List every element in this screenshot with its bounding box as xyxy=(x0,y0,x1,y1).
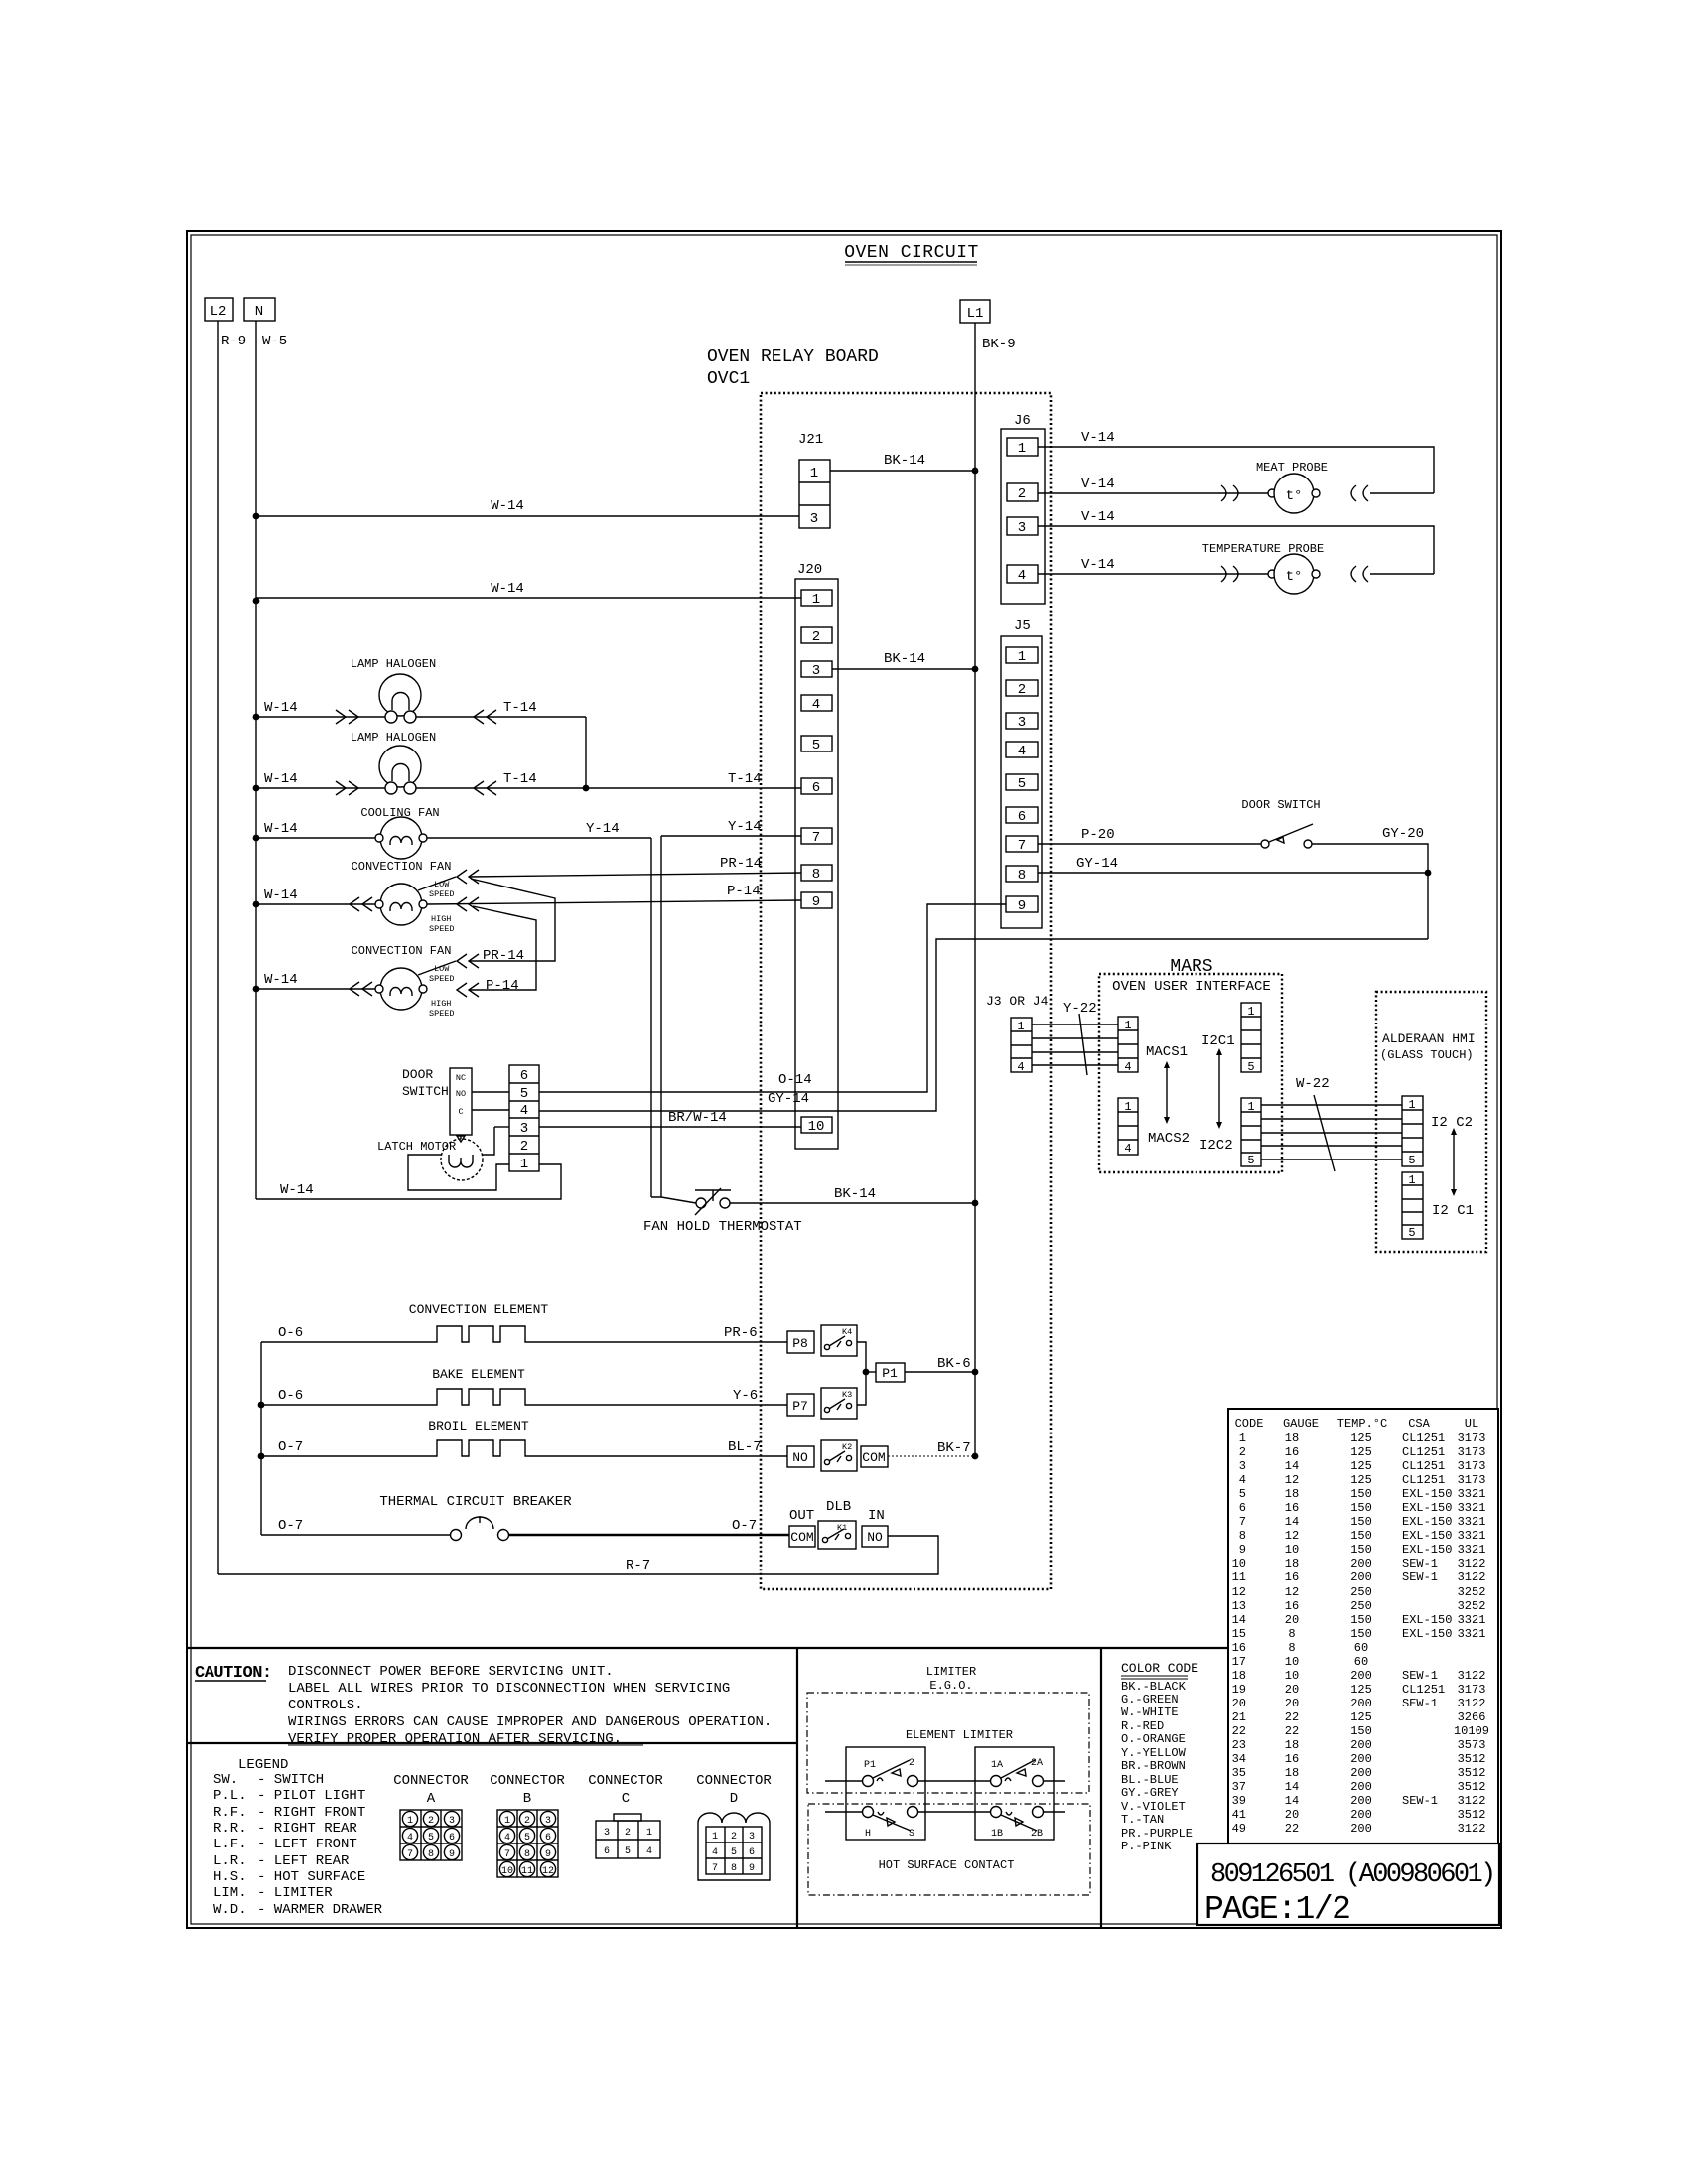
svg-text:4: 4 xyxy=(1239,1473,1246,1487)
svg-text:A: A xyxy=(427,1791,436,1807)
svg-text:3122: 3122 xyxy=(1458,1822,1486,1836)
svg-text:PR-6: PR-6 xyxy=(724,1325,758,1341)
svg-text:60: 60 xyxy=(1354,1641,1368,1655)
svg-text:125: 125 xyxy=(1350,1683,1372,1697)
svg-text:125: 125 xyxy=(1350,1445,1372,1459)
svg-text:18: 18 xyxy=(1285,1432,1299,1445)
svg-text:ELEMENT LIMITER: ELEMENT LIMITER xyxy=(906,1728,1013,1742)
wire latch motor left to pin1 xyxy=(408,1155,509,1190)
svg-text:2: 2 xyxy=(812,629,820,645)
svg-text:5: 5 xyxy=(1239,1487,1246,1501)
svg-text:3512: 3512 xyxy=(1458,1766,1486,1780)
svg-text:10: 10 xyxy=(1232,1557,1246,1570)
wire GY-20 door switch to right riser xyxy=(1312,826,1431,939)
svg-text:14: 14 xyxy=(1285,1794,1299,1808)
svg-text:4: 4 xyxy=(1018,568,1026,584)
wire K3 to P1 junction xyxy=(857,1372,866,1405)
limiter EGO heading xyxy=(926,1665,976,1693)
node L1 terminal box xyxy=(960,300,990,323)
svg-text:N: N xyxy=(255,304,263,320)
svg-text:22: 22 xyxy=(1285,1724,1299,1738)
svg-text:1: 1 xyxy=(646,1828,652,1839)
connector J20 xyxy=(795,562,838,1149)
svg-text:W-14: W-14 xyxy=(280,1182,314,1198)
svg-text:1: 1 xyxy=(1408,1173,1415,1187)
svg-text:SEW-1: SEW-1 xyxy=(1402,1557,1438,1570)
svg-text:Y-14: Y-14 xyxy=(586,821,620,837)
svg-text:K2: K2 xyxy=(842,1442,852,1452)
lamp halogen 2 label xyxy=(351,731,436,745)
relay contact block P8 xyxy=(787,1331,814,1353)
svg-text:HIGH: HIGH xyxy=(431,999,451,1009)
svg-text:W.D.: W.D. xyxy=(213,1902,247,1918)
svg-text:W-14: W-14 xyxy=(264,887,298,903)
connector I2C1 xyxy=(1201,1003,1261,1074)
title OVEN CIRCUIT xyxy=(844,243,979,265)
wire label GY-14 xyxy=(768,1091,809,1107)
svg-text:BK-7: BK-7 xyxy=(937,1440,971,1456)
temperature probe xyxy=(1202,542,1434,594)
junction dots on N feeder xyxy=(253,513,260,993)
wire L1 vertical BK-9 xyxy=(975,323,1016,1456)
svg-text:1: 1 xyxy=(504,1816,510,1827)
part number box xyxy=(1197,1843,1499,1928)
lamp halogen 1 label xyxy=(351,657,436,671)
convection fan 1 label xyxy=(352,860,452,874)
wire P-14 to J20-9 xyxy=(427,884,801,904)
wire W-14 from N to J20-1 xyxy=(256,581,801,598)
svg-text:3: 3 xyxy=(545,1816,551,1827)
svg-text:13: 13 xyxy=(1232,1599,1246,1613)
svg-text:150: 150 xyxy=(1350,1501,1372,1515)
svg-text:- WARMER DRAWER: - WARMER DRAWER xyxy=(257,1902,383,1918)
svg-text:9: 9 xyxy=(449,1849,455,1860)
door switch (left) labels xyxy=(402,1067,449,1099)
svg-text:T-14: T-14 xyxy=(728,771,762,787)
svg-text:EXL-150: EXL-150 xyxy=(1402,1501,1452,1515)
svg-text:150: 150 xyxy=(1350,1627,1372,1641)
svg-text:4: 4 xyxy=(1124,1060,1131,1074)
svg-text:P-14: P-14 xyxy=(727,884,761,899)
svg-text:3: 3 xyxy=(812,663,820,679)
svg-text:COM: COM xyxy=(862,1450,885,1465)
svg-text:5: 5 xyxy=(625,1846,631,1857)
svg-text:8: 8 xyxy=(428,1849,434,1860)
svg-text:200: 200 xyxy=(1350,1752,1372,1766)
svg-text:6: 6 xyxy=(604,1846,610,1857)
svg-text:3512: 3512 xyxy=(1458,1752,1486,1766)
svg-text:ALDERAAN HMI: ALDERAAN HMI xyxy=(1382,1031,1476,1046)
svg-text:CSA: CSA xyxy=(1408,1417,1430,1431)
svg-text:SPEED: SPEED xyxy=(429,1009,455,1019)
cooling fan label xyxy=(360,806,439,820)
relay K3 xyxy=(821,1388,857,1419)
svg-text:3: 3 xyxy=(1018,520,1026,536)
svg-text:EXL-150: EXL-150 xyxy=(1402,1529,1452,1543)
svg-text:39: 39 xyxy=(1232,1794,1246,1808)
svg-text:150: 150 xyxy=(1350,1613,1372,1627)
svg-text:W-5: W-5 xyxy=(262,334,287,349)
svg-text:R-9: R-9 xyxy=(221,334,246,349)
svg-text:5: 5 xyxy=(520,1086,528,1102)
svg-text:SPEED: SPEED xyxy=(429,974,455,984)
element limiter dash-dot box xyxy=(807,1693,1089,1793)
svg-text:1: 1 xyxy=(812,592,820,608)
svg-text:4: 4 xyxy=(1017,1060,1024,1074)
svg-text:3321: 3321 xyxy=(1458,1613,1486,1627)
svg-text:16: 16 xyxy=(1285,1501,1299,1515)
svg-text:J6: J6 xyxy=(1014,413,1031,429)
wire BR/W-14 pin3 to J20-10 xyxy=(494,1110,801,1127)
svg-text:SPEED: SPEED xyxy=(429,924,455,934)
ALDERAAN HMI dashed box xyxy=(1376,992,1486,1252)
svg-text:809126501 (A00980601): 809126501 (A00980601) xyxy=(1210,1860,1494,1890)
svg-text:3173: 3173 xyxy=(1458,1683,1486,1697)
svg-text:3122: 3122 xyxy=(1458,1570,1486,1584)
svg-text:GY-20: GY-20 xyxy=(1382,826,1424,842)
wire N vertical W-14 feeder xyxy=(256,321,287,1199)
svg-text:GAUGE: GAUGE xyxy=(1283,1417,1319,1431)
svg-text:35: 35 xyxy=(1232,1766,1246,1780)
svg-text:K3: K3 xyxy=(842,1390,852,1400)
svg-text:TEMPERATURE PROBE: TEMPERATURE PROBE xyxy=(1202,542,1324,556)
svg-text:P-14: P-14 xyxy=(486,978,519,994)
svg-text:15: 15 xyxy=(1232,1627,1246,1641)
svg-text:20: 20 xyxy=(1285,1697,1299,1710)
svg-text:OVEN USER INTERFACE: OVEN USER INTERFACE xyxy=(1112,979,1271,995)
svg-text:R.F.: R.F. xyxy=(213,1805,247,1821)
svg-text:5: 5 xyxy=(1408,1226,1415,1240)
wire BK-7 to L1 xyxy=(888,1440,978,1459)
bottom band top border xyxy=(187,1647,1228,1649)
svg-text:14: 14 xyxy=(1232,1613,1246,1627)
svg-text:6: 6 xyxy=(545,1833,551,1843)
svg-text:PR.-PURPLE: PR.-PURPLE xyxy=(1121,1827,1193,1841)
svg-text:P7: P7 xyxy=(792,1399,808,1414)
svg-text:3321: 3321 xyxy=(1458,1543,1486,1557)
wire V-14 J6-1 top loop xyxy=(1038,430,1434,493)
svg-text:60: 60 xyxy=(1354,1655,1368,1669)
svg-text:V.-VIOLET: V.-VIOLET xyxy=(1121,1800,1186,1814)
svg-text:SWITCH: SWITCH xyxy=(402,1084,449,1099)
svg-text:D: D xyxy=(730,1791,738,1807)
svg-text:- LEFT FRONT: - LEFT FRONT xyxy=(257,1837,357,1852)
svg-text:V-14: V-14 xyxy=(1081,509,1115,525)
svg-text:H.S.: H.S. xyxy=(213,1869,247,1885)
svg-text:R-7: R-7 xyxy=(626,1558,650,1573)
svg-text:2: 2 xyxy=(625,1828,631,1839)
svg-text:8: 8 xyxy=(812,867,820,883)
svg-text:- SWITCH: - SWITCH xyxy=(257,1772,324,1788)
svg-text:18: 18 xyxy=(1285,1738,1299,1752)
svg-text:CONTROLS.: CONTROLS. xyxy=(288,1698,363,1713)
svg-text:W-14: W-14 xyxy=(491,498,524,514)
thermal circuit breaker xyxy=(261,1494,789,1541)
svg-text:6: 6 xyxy=(749,1847,755,1858)
svg-text:250: 250 xyxy=(1350,1585,1372,1599)
wire GY-14 J5-8 to riser xyxy=(1038,856,1428,873)
svg-text:WIRINGS ERRORS CAN CAUSE IMPRO: WIRINGS ERRORS CAN CAUSE IMPROPER AND DA… xyxy=(288,1714,772,1730)
svg-text:P-20: P-20 xyxy=(1081,827,1115,843)
svg-text:SPEED: SPEED xyxy=(429,889,455,899)
svg-text:NO: NO xyxy=(456,1089,466,1099)
svg-text:1: 1 xyxy=(712,1832,718,1843)
svg-text:7: 7 xyxy=(1018,838,1026,854)
svg-text:1: 1 xyxy=(1124,1100,1131,1114)
svg-text:10: 10 xyxy=(1285,1669,1299,1683)
svg-text:3: 3 xyxy=(604,1828,610,1839)
svg-text:B: B xyxy=(523,1791,531,1807)
svg-text:T-14: T-14 xyxy=(503,700,537,716)
svg-text:200: 200 xyxy=(1350,1669,1372,1683)
svg-text:V-14: V-14 xyxy=(1081,557,1115,573)
svg-text:3173: 3173 xyxy=(1458,1445,1486,1459)
svg-text:150: 150 xyxy=(1350,1529,1372,1543)
svg-text:20: 20 xyxy=(1285,1683,1299,1697)
svg-text:LATCH MOTOR: LATCH MOTOR xyxy=(377,1140,456,1154)
svg-text:HOT SURFACE CONTACT: HOT SURFACE CONTACT xyxy=(879,1858,1015,1872)
svg-text:CONNECTOR: CONNECTOR xyxy=(393,1773,469,1789)
svg-text:20: 20 xyxy=(1285,1613,1299,1627)
lamp halogen 2 xyxy=(379,746,421,794)
svg-text:5: 5 xyxy=(1408,1154,1415,1167)
svg-text:8: 8 xyxy=(1288,1627,1295,1641)
svg-text:BR.-BROWN: BR.-BROWN xyxy=(1121,1759,1186,1773)
convection element xyxy=(261,1302,787,1342)
svg-text:22: 22 xyxy=(1285,1822,1299,1836)
svg-text:DLB: DLB xyxy=(826,1499,851,1515)
wire W-14 to cooling fan xyxy=(256,821,381,838)
svg-text:1: 1 xyxy=(407,1816,413,1827)
svg-text:L.F.: L.F. xyxy=(213,1837,247,1852)
svg-text:V-14: V-14 xyxy=(1081,430,1115,446)
svg-text:12: 12 xyxy=(1285,1473,1299,1487)
svg-text:I2 C2: I2 C2 xyxy=(1431,1115,1473,1131)
svg-text:5: 5 xyxy=(428,1833,434,1843)
connector I2 C1 xyxy=(1402,1172,1474,1240)
svg-text:1: 1 xyxy=(1018,441,1026,457)
svg-text:200: 200 xyxy=(1350,1822,1372,1836)
svg-text:OVEN CIRCUIT: OVEN CIRCUIT xyxy=(844,243,979,263)
svg-text:W-14: W-14 xyxy=(264,771,298,787)
svg-text:CONVECTION FAN: CONVECTION FAN xyxy=(352,860,452,874)
svg-text:2: 2 xyxy=(1239,1445,1246,1459)
svg-text:11: 11 xyxy=(521,1866,533,1877)
wire K4 to P1 xyxy=(857,1342,869,1375)
svg-text:3266: 3266 xyxy=(1458,1710,1486,1724)
svg-text:6: 6 xyxy=(812,780,820,796)
arrow MACS1-MACS2 xyxy=(1164,1061,1170,1124)
svg-text:CONVECTION ELEMENT: CONVECTION ELEMENT xyxy=(409,1302,549,1317)
svg-text:OUT: OUT xyxy=(789,1508,814,1524)
connector A xyxy=(393,1773,469,1860)
svg-text:22: 22 xyxy=(1232,1724,1246,1738)
svg-text:3252: 3252 xyxy=(1458,1599,1486,1613)
svg-text:1: 1 xyxy=(1408,1098,1415,1112)
svg-text:5: 5 xyxy=(524,1833,530,1843)
svg-text:12: 12 xyxy=(1285,1529,1299,1543)
relay K4 xyxy=(821,1325,857,1356)
svg-text:200: 200 xyxy=(1350,1766,1372,1780)
wire BK-14 thermostat to L1 xyxy=(730,1186,978,1206)
svg-text:PR-14: PR-14 xyxy=(483,948,524,964)
svg-text:12: 12 xyxy=(1285,1585,1299,1599)
svg-text:P1: P1 xyxy=(882,1366,898,1381)
svg-text:CONNECTOR: CONNECTOR xyxy=(490,1773,565,1789)
svg-text:34: 34 xyxy=(1232,1752,1246,1766)
svg-text:K4: K4 xyxy=(842,1327,852,1337)
svg-text:6: 6 xyxy=(1239,1501,1246,1515)
svg-text:CODE: CODE xyxy=(1235,1417,1264,1431)
svg-text:1: 1 xyxy=(1018,649,1026,665)
svg-text:MACS1: MACS1 xyxy=(1146,1044,1188,1060)
svg-text:LIMITER: LIMITER xyxy=(926,1665,976,1679)
svg-text:W-14: W-14 xyxy=(264,821,298,837)
limiter switch block 1 xyxy=(825,1747,990,1840)
svg-text:5: 5 xyxy=(812,738,820,753)
svg-text:200: 200 xyxy=(1350,1794,1372,1808)
branch from fan1 low speed to fan2 low speed xyxy=(469,879,555,961)
lamp halogen 1 xyxy=(379,674,421,723)
svg-text:H: H xyxy=(865,1829,871,1840)
svg-text:3321: 3321 xyxy=(1458,1627,1486,1641)
svg-text:W-14: W-14 xyxy=(491,581,524,597)
svg-text:4: 4 xyxy=(1124,1142,1131,1156)
connector J21 xyxy=(798,432,830,528)
connector MACS1 xyxy=(1118,1017,1188,1074)
svg-text:COM: COM xyxy=(790,1530,813,1545)
MARS oven user interface dashed box xyxy=(1099,957,1282,1172)
svg-text:2A: 2A xyxy=(1031,1758,1043,1769)
svg-text:L.R.: L.R. xyxy=(213,1853,247,1869)
svg-text:3: 3 xyxy=(749,1832,755,1843)
svg-text:16: 16 xyxy=(1285,1570,1299,1584)
wire GY-14 return to door connector pin4 xyxy=(539,939,1428,1111)
svg-text:t°: t° xyxy=(1286,569,1303,585)
wire R-7 return to L2 xyxy=(218,1536,938,1574)
svg-text:CONVECTION FAN: CONVECTION FAN xyxy=(352,944,452,958)
svg-text:1B: 1B xyxy=(991,1829,1003,1840)
connector J5 xyxy=(1001,618,1042,928)
svg-text:18: 18 xyxy=(1232,1669,1246,1683)
wire P-20 J5-7 to door switch xyxy=(1038,827,1261,844)
svg-text:UL: UL xyxy=(1465,1417,1478,1431)
svg-text:R.R.: R.R. xyxy=(213,1821,247,1837)
svg-text:BAKE ELEMENT: BAKE ELEMENT xyxy=(432,1367,525,1382)
svg-text:41: 41 xyxy=(1232,1808,1246,1822)
svg-text:150: 150 xyxy=(1350,1487,1372,1501)
wire NO to pin5 xyxy=(472,1091,509,1093)
svg-text:LIM.: LIM. xyxy=(213,1885,247,1901)
convection fan 1 xyxy=(375,884,427,925)
convection fan 2 speed taps xyxy=(418,948,524,1019)
relay contact block NO (broil) xyxy=(787,1446,814,1467)
relay contact block P7 xyxy=(787,1394,814,1416)
connector J3 or J4 xyxy=(986,994,1049,1074)
svg-text:3: 3 xyxy=(1239,1459,1246,1473)
svg-text:125: 125 xyxy=(1350,1459,1372,1473)
svg-text:2: 2 xyxy=(1018,486,1026,502)
svg-text:7: 7 xyxy=(712,1863,718,1874)
svg-text:- PILOT LIGHT: - PILOT LIGHT xyxy=(257,1788,365,1804)
svg-text:I2C1: I2C1 xyxy=(1201,1033,1235,1049)
svg-text:1: 1 xyxy=(520,1157,528,1172)
branch from fan1 high speed to fan2 high speed xyxy=(469,906,536,990)
svg-text:T.-TAN: T.-TAN xyxy=(1121,1813,1164,1827)
wire PR-14 to J20-8 xyxy=(469,856,801,877)
wire latch motor right to pin3 xyxy=(483,1127,494,1155)
svg-text:- RIGHT FRONT: - RIGHT FRONT xyxy=(257,1805,365,1821)
svg-text:- LEFT REAR: - LEFT REAR xyxy=(257,1853,350,1869)
svg-text:I2 C1: I2 C1 xyxy=(1432,1203,1474,1219)
svg-text:14: 14 xyxy=(1285,1459,1299,1473)
svg-text:1: 1 xyxy=(1239,1432,1246,1445)
svg-text:GY.-GREY: GY.-GREY xyxy=(1121,1786,1179,1800)
svg-text:10: 10 xyxy=(501,1866,513,1877)
svg-text:9: 9 xyxy=(1239,1543,1246,1557)
svg-text:2: 2 xyxy=(1018,682,1026,698)
svg-text:8: 8 xyxy=(1018,868,1026,884)
svg-text:49: 49 xyxy=(1232,1822,1246,1836)
svg-text:J3 OR J4: J3 OR J4 xyxy=(986,994,1049,1009)
svg-text:20: 20 xyxy=(1232,1697,1246,1710)
convection fan 1 speed taps xyxy=(418,870,479,934)
svg-text:C: C xyxy=(458,1107,463,1117)
svg-text:16: 16 xyxy=(1285,1599,1299,1613)
wire BK-14 J21-1 to L1 xyxy=(830,453,978,474)
svg-text:4: 4 xyxy=(646,1846,652,1857)
wires J3/J4 to MACS1 xyxy=(1032,1024,1118,1065)
svg-text:18: 18 xyxy=(1285,1487,1299,1501)
svg-text:3321: 3321 xyxy=(1458,1515,1486,1529)
connector B xyxy=(490,1773,565,1877)
svg-text:3: 3 xyxy=(449,1816,455,1827)
svg-text:DOOR SWITCH: DOOR SWITCH xyxy=(1241,798,1320,812)
svg-text:SEW-1: SEW-1 xyxy=(1402,1570,1438,1584)
caution/legend divider xyxy=(187,1742,797,1744)
wire Y-14 riser to J20-7 xyxy=(661,819,801,1197)
svg-text:BK-9: BK-9 xyxy=(982,337,1016,352)
svg-text:Y-22: Y-22 xyxy=(1063,1001,1097,1017)
svg-text:9: 9 xyxy=(1018,898,1026,914)
svg-text:L1: L1 xyxy=(967,306,984,322)
band divider left of limiter xyxy=(796,1648,798,1928)
svg-text:BK-6: BK-6 xyxy=(937,1356,971,1372)
svg-text:150: 150 xyxy=(1350,1543,1372,1557)
svg-text:P.-PINK: P.-PINK xyxy=(1121,1840,1172,1853)
svg-text:4: 4 xyxy=(812,697,820,713)
band divider left of color code xyxy=(1100,1648,1102,1928)
svg-text:3321: 3321 xyxy=(1458,1529,1486,1543)
fan hold thermostat xyxy=(643,1188,802,1235)
hot surface contact dash-dot box xyxy=(808,1804,1090,1895)
svg-text:14: 14 xyxy=(1285,1780,1299,1794)
svg-text:200: 200 xyxy=(1350,1738,1372,1752)
svg-text:NO: NO xyxy=(867,1530,883,1545)
svg-text:CL1251: CL1251 xyxy=(1402,1445,1445,1459)
wire V-14 J6-2 to meat probe xyxy=(1038,477,1268,493)
connector MACS2 xyxy=(1118,1098,1190,1156)
wire code table xyxy=(1228,1409,1498,1844)
svg-text:W-22: W-22 xyxy=(1296,1076,1330,1092)
svg-text:SEW-1: SEW-1 xyxy=(1402,1794,1438,1808)
svg-text:20: 20 xyxy=(1285,1808,1299,1822)
svg-text:3173: 3173 xyxy=(1458,1459,1486,1473)
svg-text:8: 8 xyxy=(524,1849,530,1860)
svg-text:J21: J21 xyxy=(798,432,823,448)
svg-text:9: 9 xyxy=(812,894,820,910)
svg-text:7: 7 xyxy=(1239,1515,1246,1529)
